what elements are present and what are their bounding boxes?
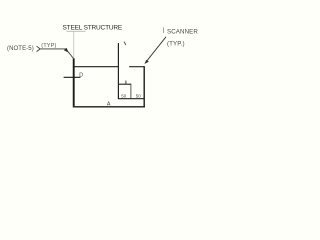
D dimension tick: [64, 76, 81, 78]
small tick above scanner bottom: [125, 81, 127, 85]
scanner bottom horizontal: [118, 83, 131, 85]
bottom dimension line A: [73, 106, 145, 108]
svg-text:(TYP.): (TYP.): [167, 41, 185, 48]
small vertical dash left of SCANNER: [163, 28, 165, 34]
small tick near top of middle vertical: [124, 42, 126, 45]
50/50 dimension line: [118, 98, 145, 100]
svg-text:(TYP): (TYP): [41, 43, 56, 49]
svg-text:(NOTE-5): (NOTE-5): [7, 46, 34, 52]
svg-text:SCANNER: SCANNER: [167, 28, 198, 35]
leader vertical from STEEL STRUCTURE to structure: [73, 31, 75, 58]
arrowhead of SCANNER leader: [144, 60, 148, 64]
svg-text:50: 50: [121, 93, 127, 98]
beam top line right segment: [129, 66, 144, 68]
svg-text:50: 50: [136, 93, 142, 98]
svg-text:STEEL STRUCTURE: STEEL STRUCTURE: [63, 24, 123, 31]
leader tail chevron of NOTE-5: [37, 46, 41, 51]
beam top line left segment: [73, 66, 118, 68]
svg-text:A: A: [107, 102, 111, 108]
left vertical member: [73, 58, 75, 106]
middle dimension extension vertical: [130, 84, 132, 99]
leader from SCANNER label: [147, 37, 166, 61]
middle vertical line: [117, 43, 119, 99]
leader underline under STEEL: [67, 30, 86, 32]
leader line from NOTE-5: [40, 49, 73, 59]
right vertical member: [143, 66, 145, 107]
arrowhead of NOTE-5 leader: [64, 48, 69, 53]
